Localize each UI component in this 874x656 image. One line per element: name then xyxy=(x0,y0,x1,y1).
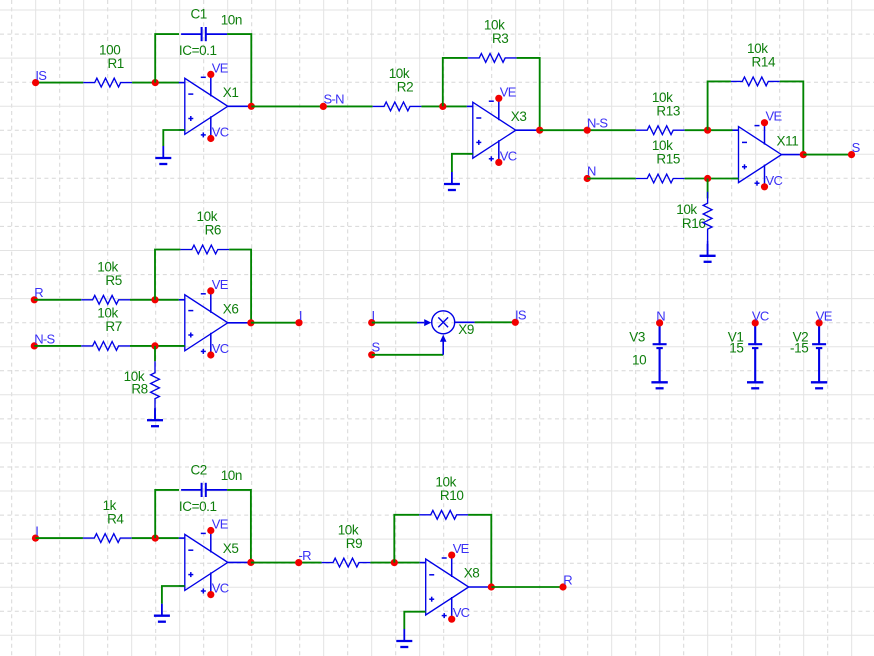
node VC terminal of V1 xyxy=(752,319,759,326)
wire xyxy=(707,241,709,256)
node IS terminal xyxy=(32,79,39,86)
wire xyxy=(132,537,179,539)
svg-text:IS: IS xyxy=(35,68,47,83)
svg-text:N: N xyxy=(587,164,596,179)
wire xyxy=(370,562,419,564)
resistor R16 xyxy=(703,192,712,241)
node VC pin dot X6 xyxy=(207,351,214,358)
svg-text:VE: VE xyxy=(453,541,470,556)
wire xyxy=(685,129,733,131)
svg-text:V3: V3 xyxy=(629,329,645,344)
ground at X1 xyxy=(155,146,171,164)
node S terminal xyxy=(848,151,855,158)
wire xyxy=(155,490,179,538)
svg-text:R15: R15 xyxy=(656,152,680,167)
wire xyxy=(517,58,540,130)
op-amp X5 xyxy=(179,531,251,595)
svg-text:R10: R10 xyxy=(440,488,464,503)
ground of V2 xyxy=(811,382,827,388)
node VE pin dot X6 xyxy=(207,287,214,294)
node R terminal row2 xyxy=(31,296,38,303)
wire xyxy=(251,105,372,107)
svg-text:R9: R9 xyxy=(346,536,362,551)
svg-text:I: I xyxy=(35,524,38,539)
svg-text:VE: VE xyxy=(766,109,783,124)
node VE pin dot X5 xyxy=(207,527,214,534)
op-amp X6 xyxy=(179,291,251,355)
wire xyxy=(227,490,251,563)
node VC pin dot X5 xyxy=(207,591,214,598)
svg-text:N: N xyxy=(656,308,665,323)
wire xyxy=(421,105,466,107)
wire xyxy=(132,82,179,84)
wire xyxy=(452,154,473,172)
node VE pin dot X8 xyxy=(448,552,455,559)
wire xyxy=(154,410,156,420)
op-amp X1 xyxy=(179,74,252,138)
node I terminal row3 xyxy=(32,535,39,542)
svg-text:R: R xyxy=(563,572,572,587)
ground at R8 xyxy=(147,408,163,426)
wire xyxy=(251,322,299,324)
svg-text:VC: VC xyxy=(752,308,769,323)
svg-text:I: I xyxy=(372,308,375,323)
wire xyxy=(685,178,739,180)
junction R2/R3/X3 xyxy=(439,103,446,110)
svg-text:X1: X1 xyxy=(223,85,239,100)
svg-text:S-N: S-N xyxy=(324,92,345,107)
wire xyxy=(34,299,81,301)
svg-text:R1: R1 xyxy=(107,56,123,71)
svg-text:C2: C2 xyxy=(190,462,206,477)
wire xyxy=(163,130,185,146)
wire xyxy=(491,586,563,588)
svg-text:N-S: N-S xyxy=(587,115,608,130)
svg-text:10: 10 xyxy=(632,353,646,368)
voltage source V3 xyxy=(653,323,667,382)
node IS terminal X9 output xyxy=(512,319,519,326)
ground at R16 xyxy=(700,244,716,262)
svg-text:VE: VE xyxy=(816,308,833,323)
svg-text:VC: VC xyxy=(212,341,229,356)
svg-text:VC: VC xyxy=(212,581,229,596)
svg-text:C1: C1 xyxy=(190,7,206,22)
node output X5 xyxy=(247,559,254,566)
wire xyxy=(708,81,731,130)
multiplier X9 xyxy=(417,311,475,355)
resistor R2 xyxy=(373,102,422,111)
svg-text:IC=0.1: IC=0.1 xyxy=(179,43,217,58)
wire xyxy=(587,178,636,180)
svg-text:10n: 10n xyxy=(221,12,242,27)
wire xyxy=(251,562,322,564)
node output X6 xyxy=(247,319,254,326)
node VE pin dot X1 xyxy=(207,71,214,78)
wire xyxy=(155,250,180,300)
node VE pin dot X11 xyxy=(761,119,768,126)
wire xyxy=(130,299,179,301)
wire xyxy=(404,612,425,629)
wire xyxy=(803,154,851,156)
wire xyxy=(372,322,417,324)
junction R15/R16/X11 xyxy=(704,175,711,182)
resistor R14 xyxy=(731,77,780,86)
svg-text:I: I xyxy=(299,308,302,323)
node N-S terminal row1 xyxy=(584,127,591,134)
voltage source V1 xyxy=(748,323,762,382)
svg-text:R4: R4 xyxy=(107,511,124,526)
node VE pin dot X3 xyxy=(495,95,502,102)
wire xyxy=(154,346,156,361)
node VC pin dot X3 xyxy=(495,159,502,166)
svg-text:X5: X5 xyxy=(223,541,239,556)
junction R7/R8/X6 xyxy=(151,342,158,349)
wire xyxy=(36,82,84,84)
wire xyxy=(34,345,81,347)
node I terminal X9 input xyxy=(368,319,375,326)
svg-text:10k: 10k xyxy=(676,202,697,217)
svg-text:-R: -R xyxy=(299,548,312,563)
ground at X3 xyxy=(444,172,460,190)
resistor R8 xyxy=(151,361,160,410)
resistor R13 xyxy=(636,126,685,135)
node output X1 xyxy=(248,103,255,110)
node N-S terminal row2 xyxy=(31,342,38,349)
wire xyxy=(155,34,179,83)
svg-text:-15: -15 xyxy=(790,341,808,356)
node VE terminal of V2 xyxy=(816,319,823,326)
junction R4/C2/X5 xyxy=(152,535,159,542)
svg-text:R14: R14 xyxy=(752,55,776,70)
svg-text:IS: IS xyxy=(515,308,527,323)
svg-text:R16: R16 xyxy=(682,216,706,231)
svg-text:R8: R8 xyxy=(131,382,147,397)
svg-text:R5: R5 xyxy=(105,273,121,288)
wire xyxy=(394,515,419,563)
junction R13/R14/X11 xyxy=(704,127,711,134)
resistor R7 xyxy=(81,342,130,351)
node VC pin dot X1 xyxy=(207,135,214,142)
svg-text:VC: VC xyxy=(500,148,517,163)
ground at X8 xyxy=(396,629,412,647)
node output X3 xyxy=(536,127,543,134)
svg-text:R6: R6 xyxy=(205,223,221,238)
op-amp X8 xyxy=(420,555,492,619)
wire xyxy=(372,354,444,356)
node N terminal of V3 xyxy=(656,319,663,326)
svg-text:IC=0.1: IC=0.1 xyxy=(179,499,217,514)
node -R terminal xyxy=(295,559,302,566)
wire xyxy=(130,345,185,347)
voltage source V2 xyxy=(812,323,826,382)
resistor R3 xyxy=(468,54,517,63)
svg-text:R2: R2 xyxy=(397,80,413,95)
capacitor C1 xyxy=(181,27,227,41)
svg-text:15: 15 xyxy=(729,341,743,356)
junction R5/R6/X6 xyxy=(151,296,158,303)
ground of V1 xyxy=(747,382,763,388)
resistor R6 xyxy=(180,245,229,254)
svg-text:R7: R7 xyxy=(105,319,121,334)
node output X8 xyxy=(488,583,495,590)
svg-text:N-S: N-S xyxy=(34,331,55,346)
svg-text:R3: R3 xyxy=(492,31,508,46)
node output X11 xyxy=(800,151,807,158)
svg-text:VE: VE xyxy=(212,277,229,292)
ground at X5 xyxy=(154,604,170,622)
wire xyxy=(468,515,491,587)
svg-text:S: S xyxy=(372,340,381,355)
op-amp X11 xyxy=(733,123,804,187)
node I terminal X6 output xyxy=(295,319,302,326)
svg-text:X3: X3 xyxy=(511,109,527,124)
svg-text:10n: 10n xyxy=(221,468,242,483)
svg-text:S: S xyxy=(852,140,861,155)
node VC pin dot X8 xyxy=(448,616,455,623)
node S-N terminal xyxy=(320,103,327,110)
svg-text:X8: X8 xyxy=(464,566,480,581)
node VC pin dot X11 xyxy=(761,183,768,190)
svg-text:VE: VE xyxy=(500,84,517,99)
resistor R15 xyxy=(636,174,685,183)
svg-text:VE: VE xyxy=(212,60,229,75)
svg-text:X11: X11 xyxy=(777,133,799,148)
svg-text:R: R xyxy=(34,285,43,300)
capacitor C2 xyxy=(181,483,227,497)
svg-text:VC: VC xyxy=(212,125,229,140)
node N terminal row1 xyxy=(584,175,591,182)
resistor R5 xyxy=(81,295,130,304)
wire xyxy=(707,179,709,199)
resistor R9 xyxy=(322,558,371,567)
wire xyxy=(162,586,185,604)
junction R9/R10/X8 xyxy=(391,559,398,566)
wire xyxy=(227,34,251,106)
ground of V3 xyxy=(651,382,667,388)
junction R1/C1/X1 xyxy=(152,79,159,86)
wire xyxy=(443,58,468,107)
svg-text:VC: VC xyxy=(453,605,470,620)
resistor R10 xyxy=(419,510,468,519)
node R terminal row3 xyxy=(559,583,566,590)
svg-text:R13: R13 xyxy=(656,103,680,118)
svg-text:X9: X9 xyxy=(458,322,474,337)
resistor R4 xyxy=(83,534,132,543)
wire xyxy=(780,81,804,154)
node S terminal X9 input xyxy=(368,351,375,358)
wire xyxy=(229,250,251,323)
resistor R1 xyxy=(83,78,132,87)
wire xyxy=(475,321,516,323)
svg-text:X6: X6 xyxy=(223,302,239,317)
svg-text:VE: VE xyxy=(212,517,229,532)
wire xyxy=(540,129,636,131)
svg-text:VC: VC xyxy=(766,173,783,188)
op-amp X3 xyxy=(467,98,540,162)
wire xyxy=(36,537,83,539)
